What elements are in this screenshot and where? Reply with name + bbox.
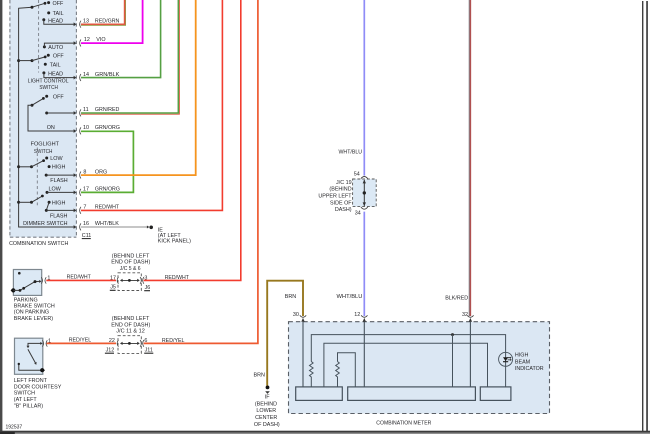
svg-text:192537: 192537 [6, 424, 23, 430]
meter pin 12 arrow [363, 318, 366, 322]
svg-text:BRN: BRN [254, 373, 265, 379]
svg-text:LOW: LOW [49, 186, 62, 192]
dimmer switch inner dashed divider [36, 148, 38, 206]
svg-text:17: 17 [110, 275, 116, 281]
svg-text:BRAKE LEVER): BRAKE LEVER) [14, 316, 53, 322]
dimmer group1 FLASH contact wire to pin8 [46, 174, 74, 176]
svg-text:HIGH: HIGH [515, 353, 529, 359]
J/C 19 internal top arrowhead [363, 180, 366, 184]
J11 underline [144, 352, 153, 354]
light control B pivot dot [31, 59, 34, 62]
dimmer group1 arm [32, 161, 44, 167]
wire GRN/RED pin11 red companion [81, 0, 179, 114]
pin16 connector arc [80, 223, 81, 230]
meter pin 30 connector arc [300, 315, 306, 317]
rail junction dot dimmer group1 [17, 165, 20, 168]
page bottom-left dark tab [0, 432, 15, 434]
wire ORG pin8 [81, 0, 196, 175]
svg-text:GRN/RED: GRN/RED [95, 107, 120, 113]
svg-text:COMBINATION METER: COMBINATION METER [376, 420, 431, 426]
svg-text:(BEHIND LEFT: (BEHIND LEFT [112, 253, 150, 259]
dimmer group2 pivot dot [30, 201, 33, 204]
svg-text:54: 54 [354, 172, 360, 178]
wire GRN/RED pin11 [81, 0, 178, 113]
svg-text:ON: ON [47, 125, 55, 131]
IF connector dot [266, 386, 270, 390]
svg-text:OF DASH): OF DASH) [254, 422, 280, 428]
meter gauge box 2 [348, 387, 476, 401]
pin7 connector arc [80, 207, 81, 214]
svg-text:12: 12 [84, 37, 90, 43]
meter bus junction dot [451, 333, 454, 336]
svg-text:END OF DASH): END OF DASH) [111, 260, 150, 266]
svg-text:RED/YEL: RED/YEL [162, 338, 185, 344]
svg-text:BRAKE SWITCH: BRAKE SWITCH [14, 304, 55, 310]
wire VIO pin12 [81, 0, 143, 43]
svg-text:1: 1 [47, 276, 50, 282]
meter pin 32 arrow [469, 318, 472, 322]
svg-text:LOWER: LOWER [256, 408, 276, 414]
rail to light control B pivot link [19, 60, 32, 62]
svg-text:UPPER LEFT: UPPER LEFT [318, 194, 352, 200]
svg-text:INDICATOR: INDICATOR [515, 366, 544, 372]
pin10 arrow [74, 129, 77, 133]
parking brake arm dot 3 [34, 280, 37, 283]
rail junction dot section B [17, 59, 20, 62]
svg-text:11: 11 [83, 107, 89, 113]
svg-text:16: 16 [83, 221, 89, 227]
light control B arm [32, 57, 45, 61]
svg-text:GRN/ORG: GRN/ORG [95, 125, 120, 131]
combination switch common rail [19, 8, 74, 227]
J/C 11-12 internal left arrowhead [120, 342, 123, 345]
wire GRN/BLK pin14 [81, 0, 161, 78]
light control A TAIL contact dot [47, 11, 50, 14]
J/C 11-12 dashed box [118, 336, 141, 354]
svg-text:PARKING: PARKING [14, 297, 38, 303]
dimmer group2 LOW contact wire to pin17 [47, 191, 74, 193]
connector C11 underline [82, 238, 91, 240]
light control A HEAD contact dot [42, 18, 45, 21]
door courtesy down arrowhead [27, 346, 30, 349]
J6 underline [144, 290, 150, 292]
parking brake pin1 arrow [39, 280, 41, 283]
wire WHT/BLK pin16 [81, 226, 148, 228]
svg-text:34: 34 [355, 211, 361, 217]
svg-text:TAIL: TAIL [53, 11, 64, 17]
svg-text:SWITCH: SWITCH [34, 149, 53, 155]
meter pin 32 connector arc [467, 315, 473, 317]
J/C 11-12 internal junction dot [128, 342, 131, 345]
light control B AUTO stub to pin12 [44, 43, 74, 47]
svg-text:AUTO: AUTO [48, 45, 63, 51]
svg-text:(BEHIND: (BEHIND [329, 187, 351, 193]
svg-text:DIMMER SWITCH: DIMMER SWITCH [23, 221, 67, 227]
svg-text:30: 30 [293, 312, 299, 318]
svg-text:J6: J6 [145, 285, 151, 291]
svg-text:LIGHT CONTROL: LIGHT CONTROL [28, 79, 69, 85]
door courtesy switch arm [28, 349, 36, 363]
page right border line 1 [642, 1, 643, 432]
svg-text:10: 10 [83, 125, 89, 131]
pin13 connector arc [80, 21, 81, 28]
svg-text:OFF: OFF [53, 94, 64, 100]
meter pin12 internal vertical [363, 322, 365, 387]
svg-text:J/C 5 & 6: J/C 5 & 6 [120, 266, 141, 272]
svg-text:14: 14 [83, 72, 89, 78]
door courtesy pin1 arrow [40, 342, 42, 345]
dimmer group2 arm [32, 196, 43, 202]
svg-text:GRN/ORG: GRN/ORG [95, 187, 120, 193]
svg-text:32: 32 [462, 312, 468, 318]
pin8 arrow [74, 173, 77, 177]
svg-text:RED/WHT: RED/WHT [95, 205, 120, 211]
svg-text:13: 13 [83, 18, 89, 24]
parking brake ground arrowhead [11, 289, 14, 293]
svg-text:RED/YEL: RED/YEL [69, 337, 92, 343]
svg-text:(BEHIND: (BEHIND [255, 401, 277, 407]
dimmer group2 HIGH-FLASH jumper [46, 202, 49, 210]
meter upper horizontal bus to LED [311, 335, 505, 362]
svg-text:FOGLIGHT: FOGLIGHT [31, 141, 60, 147]
svg-text:1: 1 [48, 339, 51, 345]
light control A arm tip dot [44, 2, 47, 5]
dimmer group2 HIGH contact dot [48, 201, 51, 204]
combination switch box dashed border [10, 0, 77, 237]
foglight pivot dot [31, 104, 34, 107]
wire RED/WHT pin7 [81, 0, 222, 210]
svg-text:ORG: ORG [95, 169, 107, 175]
dimmer group1 pivot dot [30, 165, 33, 168]
svg-text:8: 8 [83, 169, 86, 175]
wire RED/GRN pin13 green companion [81, 0, 126, 25]
svg-text:BEAM: BEAM [515, 359, 531, 365]
light control B AUTO contact dot [43, 45, 46, 48]
IF connector down arrowhead [265, 391, 270, 394]
parking brake switch box [13, 270, 41, 296]
J/C 5-6 internal wire [121, 279, 139, 281]
light control switch inner dashed divider [38, 0, 40, 73]
pin7 arrow [74, 209, 77, 213]
rail junction dot dimmer group2 [17, 201, 20, 204]
dimmer group1 arm tip dot [42, 159, 45, 162]
door courtesy ground dot [40, 368, 44, 372]
svg-text:SIDE OF: SIDE OF [330, 200, 352, 206]
combination switch box fill [10, 0, 77, 237]
svg-text:(BEHIND LEFT: (BEHIND LEFT [112, 316, 150, 322]
dimmer group1 HIGH contact dot [48, 165, 51, 168]
dimmer group1 rail link [19, 166, 32, 168]
svg-text:DOOR COURTESY: DOOR COURTESY [14, 384, 62, 390]
svg-text:7: 7 [83, 205, 86, 211]
svg-text:3: 3 [144, 276, 147, 282]
svg-text:12: 12 [354, 312, 360, 318]
svg-text:RED/WHT: RED/WHT [67, 275, 92, 281]
parking brake arm wires [13, 281, 39, 290]
pin16 arrow [74, 225, 77, 229]
door courtesy arm arrowhead [34, 362, 36, 365]
svg-text:WHT/BLK: WHT/BLK [95, 221, 119, 227]
rail to light control A pivot link [19, 7, 32, 8]
svg-text:(AT LEFT: (AT LEFT [14, 397, 38, 403]
foglight OFF contact dot [45, 95, 48, 98]
J/C 11-12 right connector arcs [140, 340, 144, 347]
svg-text:FLASH: FLASH [50, 213, 67, 219]
svg-text:22: 22 [109, 338, 115, 344]
parking brake switch contact dot [18, 272, 21, 275]
light control B TAIL contact dot [44, 63, 47, 66]
meter pin 12 connector arc [361, 315, 367, 317]
pin17 arrow [74, 191, 77, 195]
wire BLK/RED black companion [468, 0, 470, 316]
svg-text:BLK/RED: BLK/RED [445, 295, 468, 301]
svg-text:RED/GRN: RED/GRN [95, 18, 120, 24]
svg-text:6: 6 [144, 338, 147, 344]
dimmer group2 FLASH contact dot [45, 209, 48, 212]
meter branch from bus to gauge box2 [452, 335, 454, 387]
dimmer group1 LOW contact dot [45, 157, 48, 160]
high beam indicator LED triangle [503, 357, 508, 361]
J/C 5-6 right connector arcs [140, 277, 144, 284]
wire GRN/ORG pin10 to pin17 U-loop [81, 131, 133, 192]
pin14 connector arc [80, 74, 81, 81]
svg-text:LEFT FRONT: LEFT FRONT [14, 378, 48, 384]
foglight pivot L-wire to pin10 row [28, 105, 74, 131]
svg-text:FLASH: FLASH [50, 178, 67, 184]
J/C 5-6 left connector arc [117, 277, 118, 284]
svg-text:CENTER: CENTER [255, 415, 277, 421]
svg-text:J/C 11 & 12: J/C 11 & 12 [116, 329, 145, 335]
dimmer group2 rail link [19, 201, 32, 203]
svg-text:RED/WHT: RED/WHT [165, 275, 190, 281]
svg-text:HIGH: HIGH [52, 165, 66, 171]
light control B HEAD stub to pin14 [44, 73, 74, 78]
svg-text:J/C 19: J/C 19 [336, 180, 352, 186]
J5 underline [110, 289, 116, 291]
high beam indicator through wire [505, 352, 507, 387]
high beam indicator LED arrows [507, 358, 511, 360]
door courtesy ground L-wire [19, 364, 42, 371]
svg-text:KICK PANEL): KICK PANEL) [158, 239, 191, 245]
light control A HEAD stub to pin13 [44, 20, 74, 25]
light control B HEAD contact dot [42, 71, 45, 74]
svg-text:J5: J5 [110, 284, 116, 290]
svg-text:GRN/BLK: GRN/BLK [95, 72, 120, 78]
wire BRN [267, 281, 303, 386]
wire RED/YEL door courtesy left segment [47, 342, 116, 344]
page bottom gray strip [0, 433, 650, 434]
parking brake ground dot [11, 288, 15, 292]
wire RED/WHT parking brake left segment [46, 279, 116, 281]
light control B arm tip dot [44, 56, 47, 59]
pin11 connector arc [80, 109, 81, 116]
pin17 connector arc [80, 189, 81, 196]
svg-text:HIGH: HIGH [52, 201, 66, 207]
wire RED/GRN pin13 [81, 0, 125, 24]
J/C 5-6 internal junction dot [128, 279, 131, 282]
J/C 5-6 internal left arrowhead [120, 279, 123, 282]
svg-text:SWITCH: SWITCH [14, 391, 35, 397]
pin8 connector arc [80, 172, 81, 179]
svg-text:WHT/BLU: WHT/BLU [337, 294, 363, 300]
J12 underline [105, 352, 114, 354]
door courtesy pin wire and down arrow stem [28, 343, 41, 346]
J/C 19 box [353, 179, 377, 207]
svg-text:TAIL: TAIL [50, 62, 61, 68]
high beam indicator circle [499, 352, 513, 366]
IE connector dot [149, 226, 153, 230]
pin10 connector arc [80, 127, 81, 134]
parking brake arm dot 1 [19, 289, 22, 292]
svg-text:WHT/BLU: WHT/BLU [339, 150, 363, 156]
high beam indicator LED arrowheads [510, 357, 512, 361]
foglight ON wire contact dot pin11 [45, 112, 48, 115]
svg-text:COMBINATION SWITCH: COMBINATION SWITCH [9, 241, 68, 247]
page bottom border line [0, 431, 650, 433]
svg-text:HEAD: HEAD [48, 18, 63, 24]
meter gauge box 1 [296, 387, 343, 401]
door courtesy pin1 connector arcs [42, 340, 47, 346]
wire RED/YEL door courtesy right segment [144, 0, 258, 343]
meter pin 30 arrow [301, 318, 304, 322]
page left edge bar [0, 0, 2, 432]
door courtesy ground arrowhead [43, 368, 46, 372]
meter pin30 internal vertical [302, 322, 304, 387]
foglight arm [32, 98, 43, 105]
wire WHT/BLU lower segment [363, 212, 365, 316]
pin13 arrow [74, 22, 77, 26]
meter resistor 1 [309, 362, 313, 387]
svg-text:(ON PARKING: (ON PARKING [14, 310, 49, 316]
wire RED/WHT parking brake right segment [144, 0, 241, 280]
dimmer group2 arm tip dot [41, 195, 44, 198]
meter gauge box 3 [480, 387, 511, 401]
svg-text:VIO: VIO [96, 37, 105, 43]
svg-text:J12: J12 [106, 347, 115, 353]
foglight arm tip dot [42, 97, 45, 100]
J/C 19 internal wire [363, 180, 365, 206]
J/C 11-12 left connector arc [117, 340, 118, 347]
meter resistor 2 top link [338, 353, 356, 387]
svg-text:LOW: LOW [50, 156, 63, 162]
meter pin32 internal vertical [469, 322, 471, 387]
combination meter dashed box [289, 322, 550, 414]
dimmer group2 LOW contact dot [46, 191, 49, 194]
dimmer group1 FLASH contact dot [45, 174, 48, 177]
pin12 arrow [74, 41, 77, 45]
J/C 5-6 internal right arrowhead [137, 279, 140, 282]
meter lower horizontal bus [324, 343, 488, 387]
page right border line 2 [646, 1, 648, 432]
light control A pivot dot [31, 6, 34, 9]
svg-text:END OF DASH): END OF DASH) [111, 323, 150, 329]
parking brake arm dot 2 [22, 287, 25, 290]
wire WHT/BLU upper segment [363, 0, 365, 176]
svg-text:IF: IF [265, 395, 270, 401]
foglight contact wire to pin11 [47, 112, 74, 114]
J/C 11-12 internal right arrowhead [137, 342, 140, 345]
svg-text:DASH): DASH) [335, 207, 352, 213]
light control B OFF contact dot [47, 54, 50, 57]
left front door courtesy switch box [15, 338, 43, 374]
svg-text:SWITCH: SWITCH [39, 85, 58, 91]
svg-text:HEAD: HEAD [48, 71, 63, 77]
svg-text:OFF: OFF [53, 53, 64, 59]
parking brake pin1 connector arcs [41, 277, 46, 283]
J/C 11-12 internal wire [121, 342, 139, 344]
door courtesy L-wire end dot [18, 363, 20, 365]
J/C 19 upper connector arc [361, 177, 368, 179]
J/C 19 internal junction dot [363, 191, 366, 194]
svg-text:"B" PILLAR): "B" PILLAR) [14, 404, 43, 410]
svg-text:OFF: OFF [53, 1, 64, 7]
pin14 arrow [74, 76, 77, 80]
light control A arm [32, 3, 45, 7]
J/C 5-6 dashed box [118, 273, 141, 291]
IE connector arrowhead [147, 226, 149, 229]
meter resistor 2 [336, 362, 340, 387]
wire BLK/RED [469, 0, 471, 316]
high beam indicator LED bar [503, 361, 508, 363]
light control A OFF contact dot [47, 1, 50, 4]
svg-text:17: 17 [83, 187, 89, 193]
pin12 connector arc [80, 40, 81, 47]
svg-text:J11: J11 [145, 347, 153, 353]
dimmer group2 FLASH contact wire to pin7 [46, 209, 74, 211]
pin11 arrow [74, 111, 77, 115]
J/C 19 internal bottom arrowhead [363, 202, 366, 206]
svg-text:BRN: BRN [285, 294, 296, 300]
J/C 19 lower connector arc [361, 207, 368, 209]
